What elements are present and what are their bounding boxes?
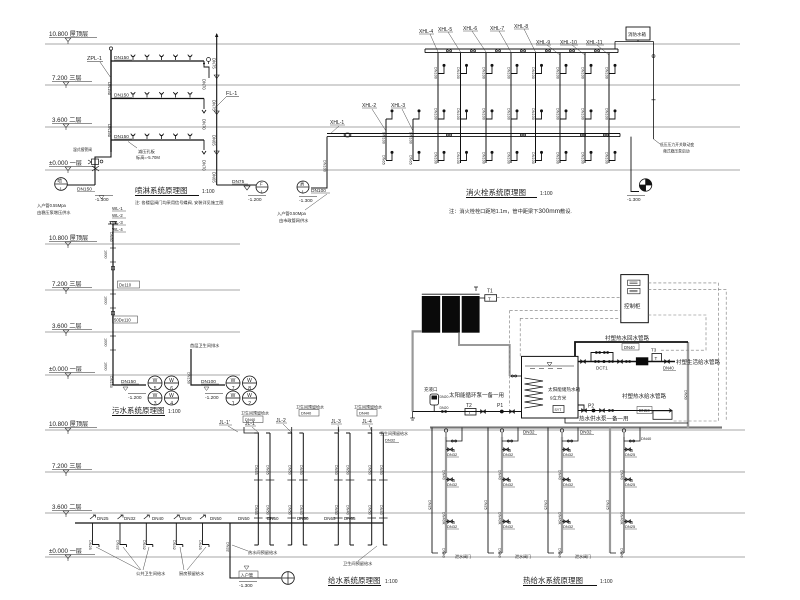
P2 pump line: [578, 410, 672, 412]
svg-text:DCT1: DCT1: [596, 366, 608, 371]
filter block: [636, 357, 648, 365]
svg-text:DN40R: DN40R: [442, 512, 446, 525]
entry pipe: [67, 184, 95, 186]
svg-text:DN65: DN65: [409, 155, 413, 165]
svg-text:公共卫生间给水: 公共卫生间给水: [136, 570, 166, 577]
heat exchange coil: [525, 378, 544, 408]
svg-text:DN100: DN100: [605, 67, 609, 79]
svg-text:热水供水泵一备一用: 热水供水泵一备一用: [579, 414, 629, 422]
svg-text:1000: 1000: [104, 250, 108, 258]
svg-text:卫生间预留给水: 卫生间预留给水: [241, 410, 269, 416]
riser pair JL-3: [334, 433, 354, 545]
leaders to texts: [96, 547, 206, 570]
svg-text:1: 1: [232, 401, 235, 407]
svg-text:喷: 喷: [58, 178, 63, 185]
svg-text:1000: 1000: [104, 362, 108, 370]
level line 7.200: [45, 84, 740, 86]
svg-text:SYT: SYT: [555, 408, 563, 412]
svg-text:热水间预留给水: 热水间预留给水: [248, 549, 278, 556]
branch pipe floor3: [111, 60, 204, 62]
T2 sensor: [465, 409, 476, 416]
svg-text:频式稳压泵启动: 频式稳压泵启动: [663, 149, 690, 154]
svg-text:DN40: DN40: [379, 505, 383, 515]
top header pipe (double line): [425, 49, 618, 53]
floor labels group 2: [49, 235, 97, 379]
svg-text:DN50: DN50: [334, 505, 338, 515]
svg-text:±0.000 一层: ±0.000 一层: [49, 160, 82, 167]
svg-text:DN150: DN150: [109, 376, 113, 388]
svg-text:减压孔板: 减压孔板: [138, 148, 156, 155]
svg-text:DN50: DN50: [267, 516, 279, 521]
svg-text:泄水阀门: 泄水阀门: [455, 553, 471, 559]
solar collector panels: [422, 296, 440, 333]
svg-text:DN100: DN100: [507, 108, 511, 120]
tank bottom suction line: [565, 418, 688, 423]
storage tank: [522, 356, 579, 418]
panel vent: [474, 287, 478, 291]
svg-text:DN25: DN25: [97, 516, 109, 521]
solar loop gray return pipe: [459, 333, 522, 376]
svg-text:F: F: [260, 182, 263, 187]
svg-text:DN32: DN32: [447, 482, 458, 487]
svg-text:DN40: DN40: [624, 345, 635, 350]
rotated labels on drops: [88, 540, 202, 550]
svg-text:泄水阀门: 泄水阀门: [515, 553, 531, 559]
svg-text:DN150: DN150: [107, 124, 112, 138]
svg-text:DN100: DN100: [531, 108, 535, 120]
svg-text:DN40: DN40: [359, 411, 370, 416]
svg-text:T2: T2: [466, 403, 472, 409]
svg-text:卫生间预留给水: 卫生间预留给水: [380, 430, 408, 436]
svg-text:DN100: DN100: [507, 67, 511, 79]
svg-text:DN40: DN40: [558, 470, 562, 480]
svg-text:-1.200: -1.200: [205, 395, 219, 401]
svg-text:DN40: DN40: [620, 470, 624, 480]
svg-text:-1.300: -1.300: [95, 197, 109, 203]
svg-text:DN50: DN50: [238, 516, 250, 521]
DN100 rotated labels on risers: [434, 67, 609, 164]
svg-text:DN50: DN50: [287, 505, 291, 515]
svg-text:10.800 屋顶层: 10.800 屋顶层: [49, 31, 88, 38]
svg-text:入户管0.55Mpa: 入户管0.55Mpa: [37, 202, 67, 209]
hot riser group 3: [544, 428, 578, 558]
top stub connections: [244, 427, 372, 433]
svg-text:DN32: DN32: [563, 524, 574, 529]
svg-text:DN65: DN65: [212, 172, 217, 183]
svg-text:-1.300: -1.300: [627, 197, 641, 203]
solar pump line: [413, 411, 522, 413]
svg-text:入户管: 入户管: [241, 572, 254, 579]
svg-text:DN150: DN150: [187, 372, 191, 384]
riser XHL-2: [385, 119, 387, 160]
svg-text:热给水系统原理图: 热给水系统原理图: [523, 575, 583, 585]
svg-text:DN20: DN20: [440, 406, 449, 410]
hot riser group 1: [428, 428, 462, 558]
svg-text:P1: P1: [497, 403, 503, 409]
floor level lines group 2 (middle): [45, 244, 240, 375]
svg-text:3.600 二层: 3.600 二层: [52, 117, 82, 124]
svg-text:衬塑热水回水管路: 衬塑热水回水管路: [605, 334, 650, 342]
svg-text:DN40: DN40: [301, 411, 312, 416]
svg-text:9立方米: 9立方米: [550, 395, 567, 402]
XHL-4..11 labels: [419, 24, 604, 46]
svg-text:DN75: DN75: [212, 58, 217, 69]
svg-text:DN40: DN40: [558, 548, 562, 558]
svg-text:DN100: DN100: [434, 67, 438, 79]
svg-text:DN25: DN25: [625, 482, 636, 487]
svg-text:3.600 二层: 3.600 二层: [52, 323, 82, 330]
svg-text:W: W: [231, 393, 236, 399]
riser XHL-3: [412, 119, 414, 160]
svg-text:FL-1: FL-1: [226, 91, 237, 97]
svg-text:入户管0.50Mpa: 入户管0.50Mpa: [277, 210, 307, 217]
floor level lines group 3 (bottom): [45, 430, 745, 557]
svg-text:DN150: DN150: [107, 82, 112, 96]
svg-text:充液口: 充液口: [424, 386, 438, 393]
svg-text:T1: T1: [487, 289, 493, 295]
svg-text:给水系统原理图: 给水系统原理图: [328, 575, 381, 585]
svg-text:ZPL-1: ZPL-1: [87, 56, 102, 62]
svg-text:DN100: DN100: [456, 108, 460, 120]
svg-text:5: 5: [154, 386, 157, 392]
svg-text:DN65: DN65: [212, 135, 217, 146]
svg-text:DN25: DN25: [484, 500, 488, 510]
svg-text:DN32: DN32: [503, 524, 514, 529]
svg-text:衬塑生活给水管路: 衬塑生活给水管路: [676, 358, 721, 366]
branch end drop floor3: [204, 61, 209, 78]
svg-text:太阳能循环泵一备一用: 太阳能循环泵一备一用: [449, 391, 504, 399]
supply main second floor: [75, 522, 383, 524]
svg-text:DN40: DN40: [442, 548, 446, 558]
leader lines from labels to risers: [430, 29, 609, 55]
svg-text:DN70: DN70: [202, 79, 207, 90]
svg-text:50De110: 50De110: [114, 318, 131, 323]
svg-text:DN100: DN100: [507, 152, 511, 164]
entry circle hydrant: [297, 181, 309, 193]
svg-text:DN40: DN40: [498, 548, 502, 558]
svg-text:卫生间预留给水: 卫生间预留给水: [354, 404, 382, 410]
svg-text:W: W: [169, 393, 174, 399]
svg-text:DN50: DN50: [639, 408, 650, 413]
svg-text:7.200 三层: 7.200 三层: [52, 463, 82, 470]
hot riser group 4: [606, 428, 652, 558]
svg-text:DN50: DN50: [334, 465, 338, 475]
svg-text:WL-4: WL-4: [112, 227, 123, 232]
W circles group 1: [148, 376, 179, 405]
svg-text:-1.300: -1.300: [299, 198, 313, 204]
control cabinet: [621, 275, 649, 323]
svg-text:W: W: [231, 378, 236, 384]
svg-text:DN100: DN100: [409, 132, 413, 144]
header valves: [446, 50, 451, 52]
T1 sensor: [485, 295, 497, 302]
stack dimension ticks and labels: [104, 232, 113, 388]
svg-text:DN100: DN100: [482, 108, 486, 120]
left gray solar pipe down: [413, 331, 422, 411]
svg-text:厨房预留给水: 厨房预留给水: [179, 570, 205, 577]
svg-text:DN100: DN100: [605, 108, 609, 120]
alarm valve assembly: [95, 152, 111, 185]
risers XHL-4..XHL-11 with hydrants: [438, 53, 609, 163]
floor level lines group 1 (top): [45, 44, 740, 170]
svg-text:DN40: DN40: [442, 470, 446, 480]
svg-text:DN40: DN40: [620, 548, 624, 558]
svg-text:DN32: DN32: [385, 438, 396, 443]
svg-text:10.800 屋顶层: 10.800 屋顶层: [49, 235, 88, 242]
svg-text:DN40: DN40: [180, 516, 192, 521]
svg-text:DN40R: DN40R: [620, 512, 624, 525]
hot riser group 2: [484, 428, 518, 558]
svg-text:注：消火栓栓口距地1.1m，管中距梁下300mm敷设.: 注：消火栓栓口距地1.1m，管中距梁下300mm敷设.: [449, 207, 572, 215]
svg-text:DN65: DN65: [382, 155, 386, 165]
rotated DN labels on risers: [254, 465, 383, 515]
T3 sensor: [652, 354, 662, 362]
svg-text:控制柜: 控制柜: [624, 302, 641, 310]
riser FL-1: [216, 34, 218, 185]
leader to pressure switch note: [654, 139, 661, 144]
svg-text:DN100: DN100: [556, 108, 560, 120]
svg-text:DN32: DN32: [503, 482, 514, 487]
svg-text:DN32: DN32: [172, 540, 176, 550]
svg-text:DN50: DN50: [266, 505, 270, 515]
svg-text:DN40: DN40: [152, 516, 164, 521]
svg-text:-1.200: -1.200: [128, 395, 142, 401]
svg-text:消: 消: [300, 181, 305, 188]
pump oval on main: [344, 133, 351, 137]
right drop to pump circle: [631, 137, 639, 192]
svg-text:T: T: [488, 296, 491, 301]
svg-text:DN32: DN32: [523, 430, 535, 435]
DCT1 bypass: [591, 353, 613, 362]
svg-text:DN40: DN40: [663, 366, 674, 371]
floor labels group 3: [49, 421, 97, 561]
tank bottom to P2: [578, 405, 584, 411]
entry drop: [230, 523, 281, 578]
svg-text:DN50: DN50: [299, 465, 303, 475]
domestic water make-up line with DCT1: [578, 361, 675, 363]
svg-text:DN40R: DN40R: [498, 512, 502, 525]
branch end drop floor2: [202, 99, 206, 114]
svg-text:DN40: DN40: [346, 505, 350, 515]
svg-text:DN100: DN100: [581, 108, 585, 120]
level line 0.000: [45, 169, 740, 171]
svg-text:DN32: DN32: [447, 524, 458, 529]
svg-text:De110: De110: [119, 283, 132, 288]
hydrant symbols three floors x 8 risers: [438, 64, 617, 161]
svg-text:1:100: 1:100: [600, 579, 613, 585]
svg-text:W: W: [169, 378, 174, 384]
svg-text:WL-2: WL-2: [112, 213, 123, 218]
svg-text:W: W: [153, 393, 158, 399]
riser pair JL-4: [368, 433, 388, 545]
riser pair JL-2: [288, 433, 308, 545]
svg-text:DN25: DN25: [606, 500, 610, 510]
svg-text:DN50: DN50: [367, 465, 371, 475]
svg-text:T3: T3: [651, 348, 657, 353]
JL labels: [219, 418, 373, 427]
svg-text:DN100: DN100: [382, 132, 386, 144]
entry circle ZP/1: [55, 178, 68, 191]
level line 3.600: [45, 126, 740, 128]
svg-text:DN50: DN50: [379, 465, 383, 475]
svg-text:8: 8: [248, 386, 251, 392]
svg-text:P2: P2: [588, 404, 594, 410]
sewage stack WL: [113, 224, 146, 385]
svg-text:DN40: DN40: [641, 436, 652, 441]
svg-text:DN100: DN100: [556, 67, 560, 79]
svg-text:DN40: DN40: [498, 470, 502, 480]
svg-text:DN40: DN40: [299, 505, 303, 515]
svg-text:DN32: DN32: [447, 452, 458, 457]
svg-text:DN32: DN32: [142, 540, 146, 550]
entry circle: [282, 572, 295, 585]
svg-text:DN100: DN100: [456, 67, 460, 79]
svg-text:DN65: DN65: [254, 465, 258, 475]
svg-text:DN100: DN100: [434, 108, 438, 120]
svg-text:DN100: DN100: [556, 152, 560, 164]
svg-text:7.200 三层: 7.200 三层: [52, 75, 82, 82]
vent cap: [108, 222, 118, 225]
svg-text:喷淋系统原理图: 喷淋系统原理图: [135, 185, 188, 195]
svg-text:DN65: DN65: [324, 516, 336, 521]
svg-text:湿式报警阀: 湿式报警阀: [73, 147, 92, 152]
svg-text:卫生间预留给水: 卫生间预留给水: [296, 404, 324, 410]
svg-text:±0.000 一层: ±0.000 一层: [49, 548, 82, 555]
svg-text:DN100: DN100: [482, 152, 486, 164]
W circles group 2: [226, 376, 257, 405]
svg-text:DN100: DN100: [581, 67, 585, 79]
mid supply main (double line): [327, 134, 620, 137]
svg-text:DN100: DN100: [581, 152, 585, 164]
svg-text:DN32: DN32: [563, 482, 574, 487]
svg-text:DN50: DN50: [210, 516, 222, 521]
svg-text:注: 各楼层阀门均采用信号蝶阀, 安装详见施工图: 注: 各楼层阀门均采用信号蝶阀, 安装详见施工图: [135, 199, 223, 206]
svg-text:W: W: [153, 378, 158, 384]
svg-text:消防水箱: 消防水箱: [628, 31, 646, 38]
right gray riser DN50: [687, 342, 689, 428]
svg-text:±0.000 一层: ±0.000 一层: [49, 366, 82, 373]
FL-1 bottom to funnel and circle F/1: [217, 184, 256, 186]
boxed De110 labels: [118, 281, 140, 288]
svg-text:首层卫生间排水: 首层卫生间排水: [190, 342, 220, 349]
svg-text:DN100: DN100: [434, 152, 438, 164]
svg-text:1000: 1000: [104, 338, 108, 346]
svg-text:污水系统原理图: 污水系统原理图: [112, 405, 165, 415]
svg-text:DN70: DN70: [202, 160, 207, 171]
svg-text:1:100: 1:100: [540, 191, 553, 197]
svg-text:DN70: DN70: [202, 119, 207, 130]
svg-text:DN40: DN40: [245, 417, 256, 422]
floor crossing ticks on risers: [254, 480, 388, 518]
svg-text:DN32: DN32: [124, 516, 136, 521]
svg-text:T: T: [468, 410, 471, 415]
svg-text:DN100: DN100: [323, 160, 327, 172]
svg-text:DN25: DN25: [625, 452, 636, 457]
check port squares: [111, 267, 114, 270]
floor labels group 1: [49, 31, 97, 173]
svg-text:-1.300: -1.300: [239, 583, 253, 589]
svg-text:DN75: DN75: [212, 100, 217, 111]
svg-text:DN50: DN50: [346, 465, 350, 475]
tank connection: [615, 40, 654, 49]
svg-text:3.600 二层: 3.600 二层: [52, 504, 82, 511]
dashed control wiring: [497, 283, 727, 421]
svg-text:DN32: DN32: [503, 452, 514, 457]
svg-text:泄水阀门: 泄水阀门: [575, 553, 591, 559]
svg-text:DN100: DN100: [456, 152, 460, 164]
svg-text:2: 2: [248, 401, 251, 407]
svg-text:DN50: DN50: [367, 505, 371, 515]
svg-text:T: T: [655, 356, 658, 361]
svg-text:7.200 三层: 7.200 三层: [52, 281, 82, 288]
level line 10.800 roof: [45, 43, 740, 45]
svg-text:DN20: DN20: [440, 395, 449, 399]
hot water supply main (thick gray): [430, 426, 722, 429]
svg-text:DN100: DN100: [605, 152, 609, 164]
svg-text:DN65: DN65: [254, 505, 258, 515]
DN labels on main right part: [238, 516, 356, 521]
svg-text:W: W: [247, 393, 252, 399]
tank outlet down pipe: [653, 42, 655, 140]
svg-text:衬塑热水给水管路: 衬塑热水给水管路: [622, 392, 667, 400]
svg-text:DN50: DN50: [109, 232, 113, 242]
svg-text:DN65: DN65: [266, 465, 270, 475]
check valve arrows at tops: [90, 515, 206, 519]
branch end drop floor1: [202, 140, 206, 154]
svg-text:DN100: DN100: [482, 67, 486, 79]
svg-text:7: 7: [232, 386, 235, 392]
svg-text:由市政管网供水: 由市政管网供水: [279, 217, 309, 224]
svg-text:DN50: DN50: [683, 390, 687, 400]
svg-text:1:100: 1:100: [168, 409, 181, 415]
XHL-1 entry riser: [311, 137, 327, 188]
svg-text:DN25: DN25: [198, 540, 202, 550]
branch pipe floor1: [111, 139, 204, 141]
riser pair JL-1: [254, 433, 274, 545]
svg-text:1000: 1000: [104, 296, 108, 304]
svg-text:DN100: DN100: [531, 67, 535, 79]
entry marks: [239, 571, 258, 578]
svg-text:DN100: DN100: [531, 152, 535, 164]
svg-text:-1.200: -1.200: [248, 197, 262, 203]
svg-text:DN25: DN25: [625, 524, 636, 529]
svg-text:DN32: DN32: [226, 542, 230, 552]
svg-text:标高=-5.70M: 标高=-5.70M: [136, 154, 160, 161]
svg-text:WL-1: WL-1: [112, 206, 123, 211]
svg-text:低压压力开关联动变: 低压压力开关联动变: [660, 142, 694, 147]
left branch drops with DN labels: [97, 516, 222, 521]
svg-text:10.800 屋顶层: 10.800 屋顶层: [49, 421, 88, 428]
svg-text:由稳压泵增压供水: 由稳压泵增压供水: [37, 209, 71, 216]
svg-text:DN32: DN32: [563, 452, 574, 457]
tank top outlet to return line: [575, 342, 688, 356]
svg-text:DN25: DN25: [428, 500, 432, 510]
roof fire tank: [626, 27, 650, 40]
svg-text:消火栓系统原理图: 消火栓系统原理图: [466, 187, 526, 197]
svg-text:太阳能储热水箱: 太阳能储热水箱: [548, 386, 581, 393]
svg-text:6: 6: [170, 386, 173, 392]
branch pipe floor2: [111, 98, 204, 100]
svg-text:4: 4: [170, 401, 173, 407]
svg-text:DN32: DN32: [116, 540, 120, 550]
svg-text:1:100: 1:100: [202, 189, 215, 195]
riser ZPL-1: [110, 50, 112, 152]
svg-text:DN50: DN50: [287, 465, 291, 475]
svg-text:W: W: [247, 378, 252, 384]
svg-text:DN25: DN25: [88, 540, 92, 550]
svg-text:1:100: 1:100: [385, 579, 398, 585]
svg-text:DN32: DN32: [580, 430, 592, 435]
